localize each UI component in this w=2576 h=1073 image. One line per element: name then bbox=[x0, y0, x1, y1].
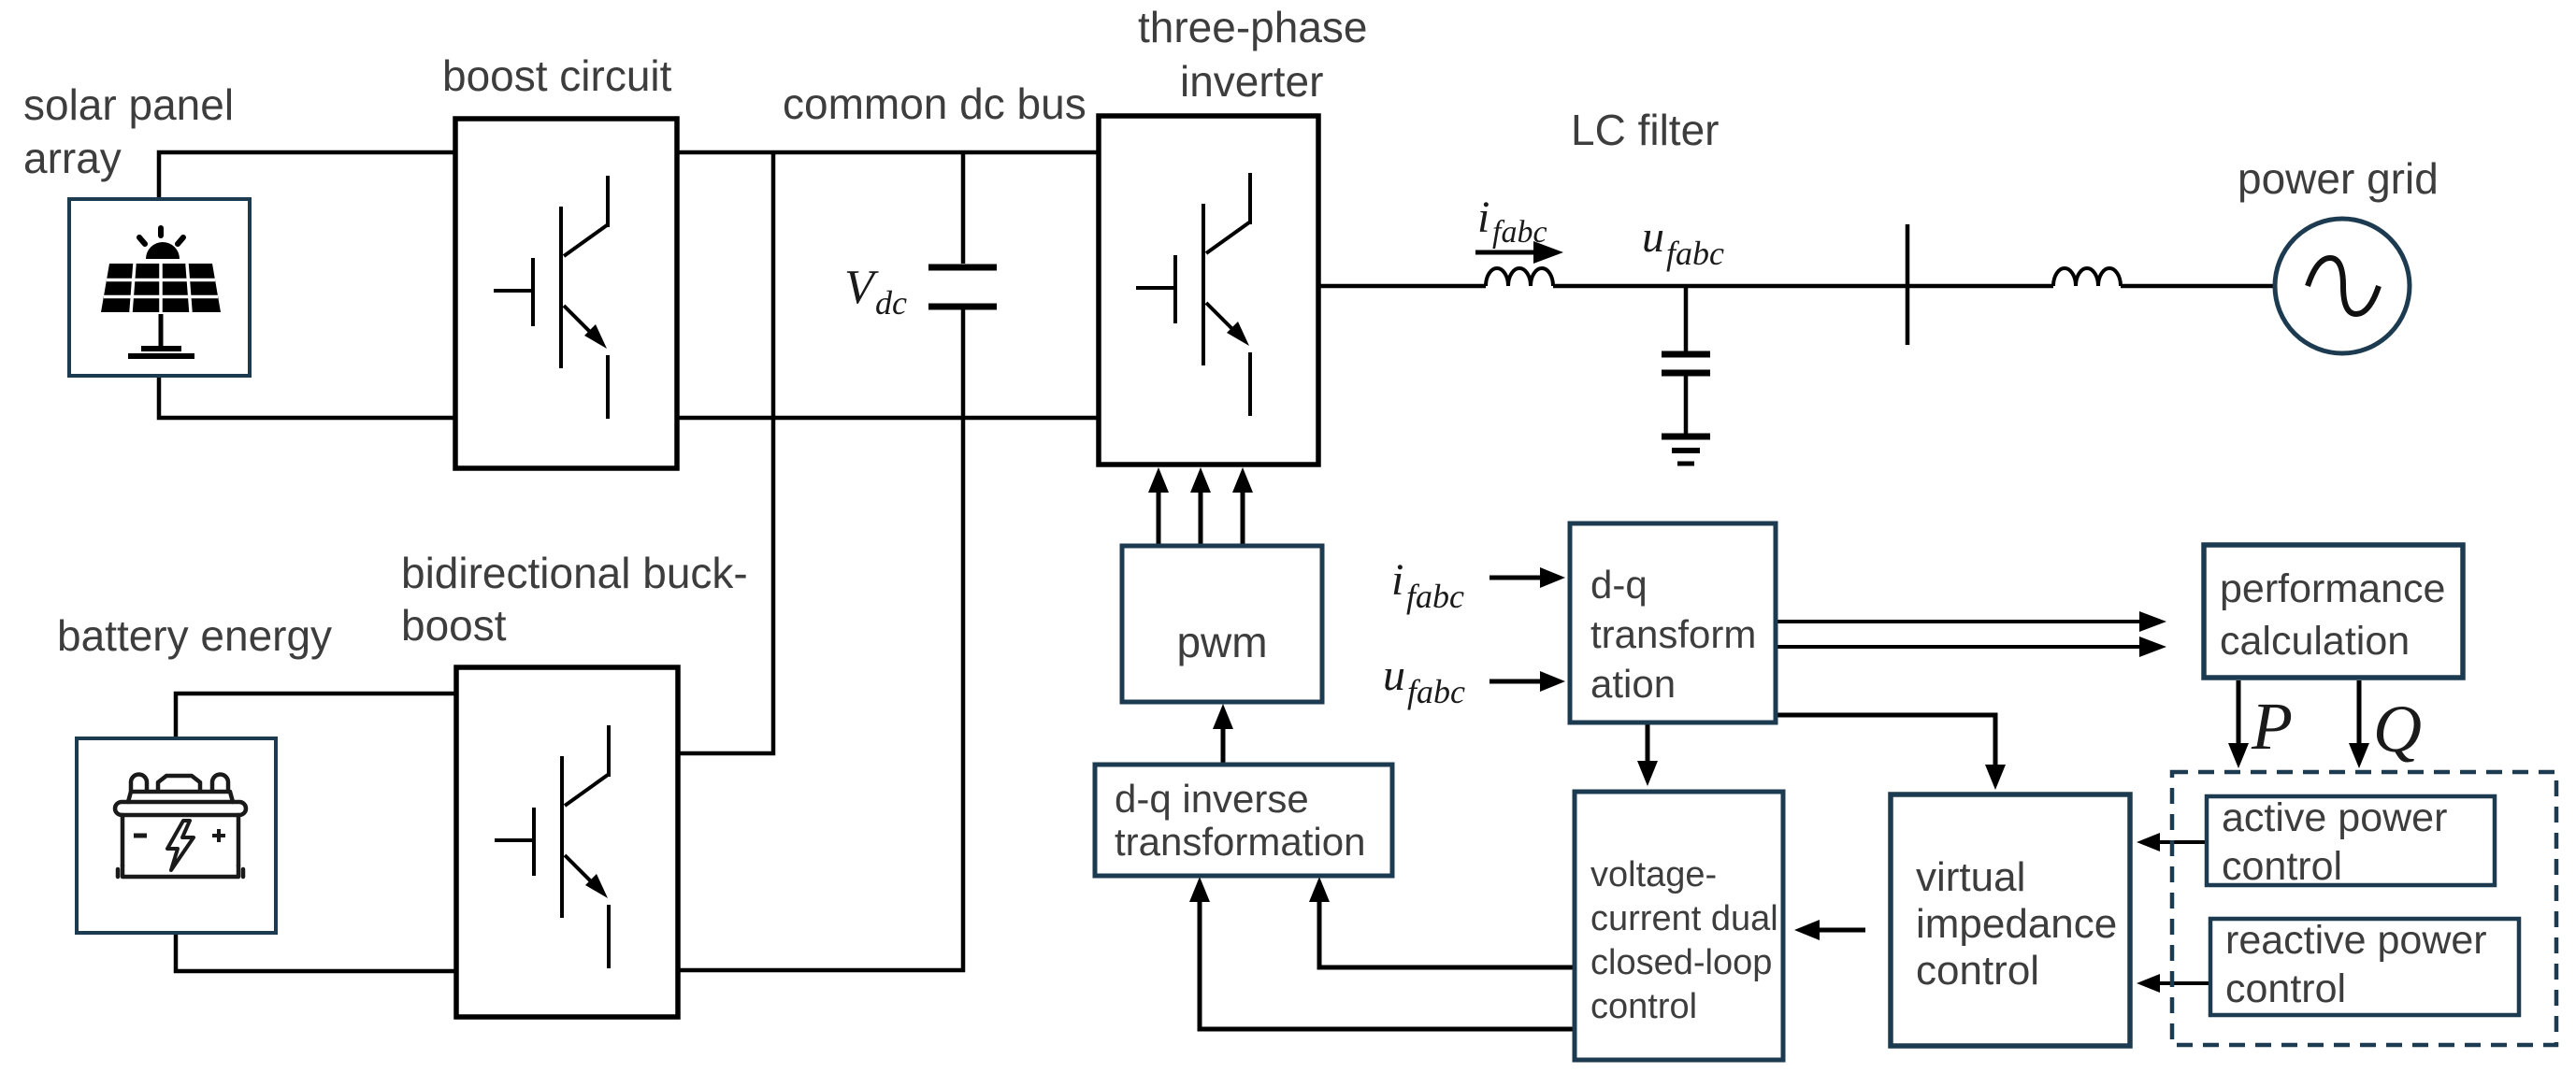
svg-text:u: u bbox=[1383, 651, 1405, 700]
svg-text:P: P bbox=[2251, 689, 2293, 764]
svg-text:u: u bbox=[1642, 212, 1664, 262]
svg-text:fabc: fabc bbox=[1492, 215, 1547, 250]
svg-text:transform: transform bbox=[1590, 612, 1756, 656]
svg-text:d-q inverse: d-q inverse bbox=[1115, 777, 1309, 821]
svg-text:bidirectional buck-: bidirectional buck- bbox=[401, 549, 748, 597]
svg-text:closed-loop: closed-loop bbox=[1590, 943, 1772, 982]
svg-text:array: array bbox=[23, 134, 122, 182]
svg-text:virtual: virtual bbox=[1916, 854, 2025, 900]
svg-text:transformation: transformation bbox=[1115, 820, 1365, 864]
svg-text:control: control bbox=[1916, 948, 2039, 994]
svg-text:power grid: power grid bbox=[2238, 154, 2439, 203]
svg-text:boost circuit: boost circuit bbox=[442, 51, 672, 100]
svg-text:V: V bbox=[844, 261, 879, 314]
svg-text:pwm: pwm bbox=[1176, 618, 1267, 666]
svg-text:control: control bbox=[2225, 966, 2346, 1011]
svg-text:inverter: inverter bbox=[1180, 57, 1323, 106]
svg-text:current dual: current dual bbox=[1590, 899, 1778, 938]
svg-text:calculation: calculation bbox=[2220, 619, 2410, 664]
svg-text:boost: boost bbox=[401, 601, 507, 650]
svg-text:d-q: d-q bbox=[1590, 563, 1648, 607]
svg-text:performance: performance bbox=[2220, 566, 2445, 611]
svg-text:control: control bbox=[2222, 844, 2342, 889]
svg-text:common dc bus: common dc bus bbox=[783, 79, 1087, 128]
svg-text:battery energy: battery energy bbox=[57, 611, 332, 660]
svg-text:solar panel: solar panel bbox=[23, 80, 234, 129]
svg-text:i: i bbox=[1391, 555, 1403, 605]
svg-text:fabc: fabc bbox=[1407, 673, 1465, 710]
svg-text:active power: active power bbox=[2222, 795, 2447, 840]
svg-text:fabc: fabc bbox=[1406, 578, 1464, 615]
svg-text:i: i bbox=[1477, 193, 1489, 242]
svg-text:control: control bbox=[1590, 987, 1697, 1026]
svg-text:ation: ation bbox=[1590, 662, 1676, 706]
svg-text:fabc: fabc bbox=[1666, 235, 1724, 272]
svg-text:dc: dc bbox=[875, 284, 907, 322]
svg-text:three-phase: three-phase bbox=[1138, 3, 1368, 51]
svg-text:voltage-: voltage- bbox=[1590, 855, 1717, 894]
svg-text:impedance: impedance bbox=[1916, 901, 2117, 947]
svg-text:reactive power: reactive power bbox=[2225, 918, 2487, 963]
svg-text:LC filter: LC filter bbox=[1571, 106, 1719, 154]
svg-text:Q: Q bbox=[2373, 692, 2422, 766]
